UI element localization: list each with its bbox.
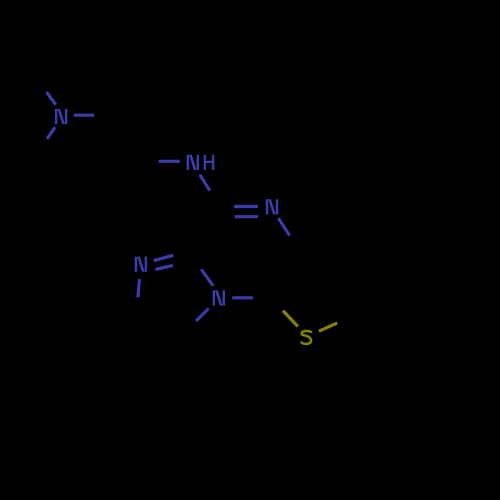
double bond C4=N3 main line, N half [234, 205, 258, 208]
bond N(CH3)2 to methyl C (upper), N half [46, 92, 56, 105]
bond N(CH3)2 to methyl C (lower), N half [47, 127, 55, 139]
bond S to C2t, S half [319, 323, 337, 331]
bond C3i to N5, N half [196, 309, 209, 321]
bond C9b to S, S half [283, 311, 298, 327]
bond NH to C4 of ring, C half [210, 191, 219, 207]
bond N(CH3)2 to methyl C (upper), C half [38, 81, 46, 92]
bond C9a to C4 [193, 207, 219, 253]
bond CH2 to NH, C half [140, 160, 159, 163]
bond N(CH3)2 to CH2, N half [74, 114, 94, 117]
phenyl ring bonds [400, 316, 446, 342]
bond C9b to N5, N half [232, 296, 253, 299]
bond C2t to phenyl ipso [355, 316, 401, 342]
atom label N3 (pyrimidine N) [266, 199, 268, 214]
double bond C9a=N1 main line, N half [154, 255, 174, 260]
double bond C4=N3 inner line, C half [226, 215, 235, 218]
bond N3 to C3a, N half [278, 218, 289, 236]
double bond C2t=C3t [349, 263, 355, 315]
double bond C4=N3 main line, C half [219, 205, 234, 209]
atom label S (thiophene S) [301, 331, 311, 344]
bond N1 to C2i, N half [138, 279, 140, 298]
atom label N of N(CH3)2 [55, 109, 57, 124]
bond N(CH3)2 to methyl C (lower), C half [39, 139, 47, 151]
bond N(CH3)2 to CH2, C half [94, 114, 114, 117]
bond C3i to N5, C half [184, 321, 196, 337]
atom label N1 (imidazole N) [135, 257, 137, 272]
bond S to C2t, C half [337, 316, 355, 323]
atom label NH (secondary amine) [187, 155, 189, 170]
bond C9b to N5, C half [253, 296, 272, 300]
bond C9b to S, C half [272, 298, 283, 311]
double bond C9a=N1 inner line, N half [155, 265, 173, 269]
double bond C4=N3 inner line, N half [235, 215, 259, 218]
double bond C2i=C3i [136, 316, 184, 337]
bond N1 to C2i, C half [136, 298, 138, 316]
bond NH to C4 of ring, N half [200, 175, 210, 191]
bond C3t to C3a [298, 253, 349, 264]
bond CH2 to NH, N half [159, 160, 180, 163]
double bond C3a=C9b [272, 253, 298, 299]
bond N5 to C9a (ring fusion), N half [201, 269, 213, 286]
bond N5 to C9a (ring fusion), C half [193, 253, 202, 270]
bond CH2-CH2 [114, 116, 140, 162]
atom label N5 (bridgehead N) [213, 290, 215, 305]
double bond C9a=N1 main line, C half [173, 253, 192, 256]
double bond C9a=N1 inner line, C half [173, 264, 181, 266]
bond N3 to C3a, C half [290, 236, 298, 253]
